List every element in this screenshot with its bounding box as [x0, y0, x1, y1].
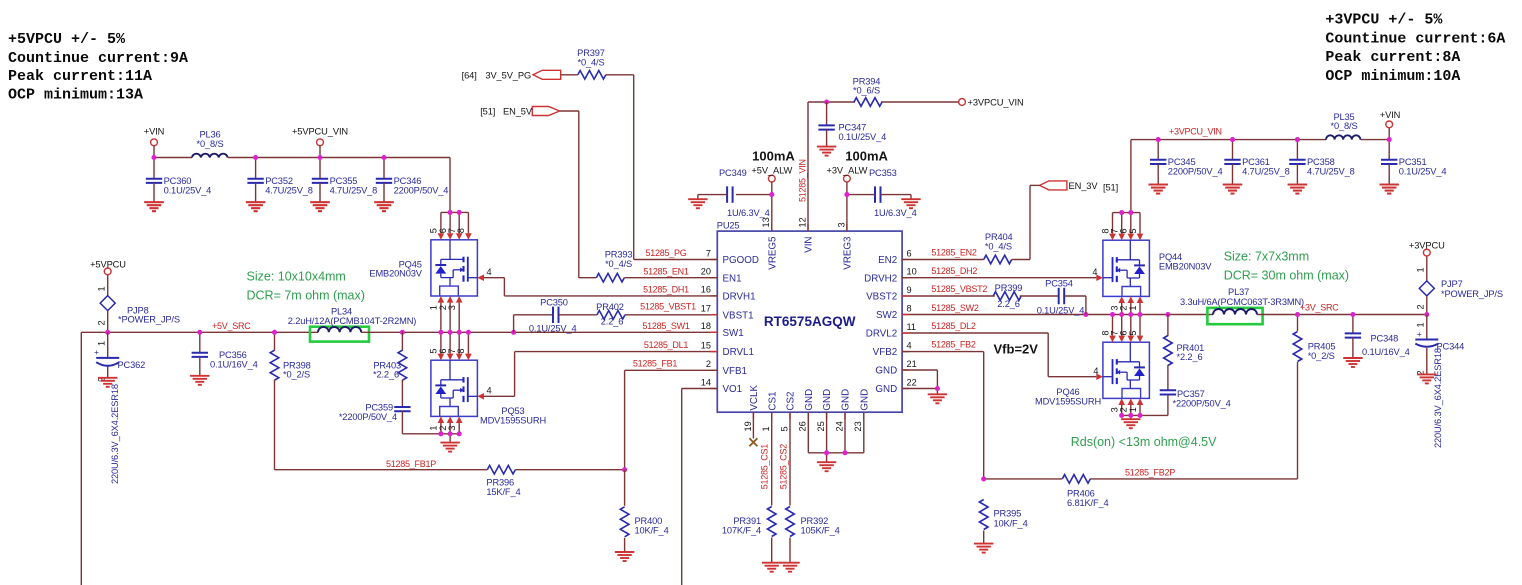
wire SW2 node [902, 314, 1213, 316]
wire +3V_ALW stem [846, 182, 848, 195]
note +5VPCU title block [8, 31, 188, 104]
svg-text:11: 11 [907, 322, 917, 332]
note +3VPCU title block [1325, 12, 1505, 85]
svg-text:3: 3 [447, 425, 457, 430]
junction PC355 [317, 155, 322, 160]
resistor PR398 [270, 332, 310, 380]
svg-text:PL34: PL34 [331, 306, 352, 316]
wire +5V_SRC line [81, 332, 318, 585]
transistor PQ53 MDV1595SURH [431, 360, 546, 425]
wire PQ46 gate to DRVL2 [902, 333, 1096, 377]
svg-text:0.1U/16V_4: 0.1U/16V_4 [210, 360, 258, 370]
capacitor PC344 (polarized) [1415, 315, 1464, 449]
svg-text:PC357: PC357 [1177, 389, 1205, 399]
wire VO1 row [682, 389, 718, 585]
svg-text:1: 1 [1128, 305, 1138, 310]
svg-text:19: 19 [743, 421, 753, 431]
svg-text:EMB20N03V: EMB20N03V [369, 269, 422, 279]
svg-text:PR406: PR406 [1067, 489, 1095, 499]
svg-text:4: 4 [1093, 366, 1098, 376]
no-connect X on VCLK pin 19 [749, 412, 757, 446]
svg-text:PR399: PR399 [995, 283, 1023, 293]
ground PR391 [762, 563, 781, 572]
svg-text:2.2_6: 2.2_6 [997, 299, 1020, 309]
svg-text:*POWER_JP/S: *POWER_JP/S [118, 314, 180, 324]
junction PJP8/+5V_SRC [105, 330, 110, 335]
svg-text:DCR= 30m ohm (max): DCR= 30m ohm (max) [1224, 268, 1349, 282]
svg-text:DCR= 7m ohm (max): DCR= 7m ohm (max) [247, 288, 365, 302]
svg-text:PJP7: PJP7 [1441, 279, 1463, 289]
junction PC346 [381, 155, 386, 160]
pin numbers PQ44 top [1100, 228, 1138, 233]
svg-text:*2.2_6: *2.2_6 [373, 370, 399, 380]
ground PC349 [688, 199, 707, 208]
pin 4 PQ45 (gate) [477, 267, 491, 281]
wire +3V_SRC line [1257, 314, 1427, 316]
svg-text:PC348: PC348 [1371, 334, 1399, 344]
svg-text:51285_SW1: 51285_SW1 [642, 321, 690, 331]
svg-text:51285_DH2: 51285_DH2 [931, 266, 977, 276]
svg-text:DRVL1: DRVL1 [723, 347, 754, 358]
svg-text:[51]: [51] [1103, 183, 1118, 193]
svg-text:*0_4/S: *0_4/S [985, 241, 1012, 251]
svg-text:0.1U/25V_4: 0.1U/25V_4 [839, 132, 887, 142]
pin arrows PQ46 top pins 8 7 6 5 [1109, 315, 1143, 343]
capacitor PC354 (bootstrap) [902, 279, 1086, 316]
svg-text:PC347: PC347 [839, 123, 867, 133]
svg-text:51285_FB1P: 51285_FB1P [386, 459, 436, 469]
svg-text:PR392: PR392 [801, 516, 829, 526]
pin numbers PQ45 bottom [429, 305, 457, 310]
junction PR405/+3V_SRC [1295, 312, 1300, 317]
svg-text:Countinue current:9A: Countinue current:9A [8, 50, 188, 67]
wire EN2 to EN_3V [902, 185, 1040, 259]
wire VREG5 net [736, 195, 772, 232]
junction PC361 [1230, 137, 1235, 142]
svg-text:PR396: PR396 [486, 478, 514, 488]
svg-text:4.7U/25V_8: 4.7U/25V_8 [330, 186, 378, 196]
IC top pin numbers [761, 217, 846, 227]
wire PQ45 drain bus [441, 211, 469, 213]
ground PC352 [246, 202, 265, 211]
wire +5VPCU_VIN stem [319, 146, 321, 158]
pin numbers PQ45 top [429, 228, 467, 233]
IC left pin numbers [701, 248, 711, 387]
IC bottom pin stubs [753, 412, 863, 419]
pin arrows PQ44 bottom pins 3 2 1 [1118, 296, 1143, 314]
note size right [1224, 249, 1349, 282]
svg-text:*0_6/S: *0_6/S [853, 85, 880, 95]
svg-text:6.81K/F_4: 6.81K/F_4 [1067, 498, 1109, 508]
svg-text:PC350: PC350 [540, 298, 568, 308]
svg-text:PL37: PL37 [1228, 287, 1249, 297]
ground PR400 [615, 552, 634, 561]
transistor PQ45 EMB20N03V [369, 240, 477, 296]
svg-text:2: 2 [1416, 304, 1426, 309]
svg-text:10: 10 [907, 267, 917, 277]
resistor PR394 [853, 76, 882, 106]
sheet connector EN_5V [480, 107, 559, 117]
svg-text:PR393: PR393 [605, 250, 633, 260]
svg-text:1U/6.3V_4: 1U/6.3V_4 [874, 208, 917, 218]
svg-text:VO1: VO1 [723, 384, 743, 395]
svg-text:0.1U/16V_4: 0.1U/16V_4 [1362, 347, 1410, 357]
svg-text:+3VPCU +/- 5%: +3VPCU +/- 5% [1325, 12, 1443, 29]
svg-text:VREG5: VREG5 [767, 236, 778, 270]
svg-text:51285_EN1: 51285_EN1 [643, 267, 689, 277]
junction PC348 [1350, 312, 1355, 317]
svg-text:PR391: PR391 [733, 516, 761, 526]
svg-text:+5V_SRC: +5V_SRC [212, 321, 251, 331]
IC top pin names [767, 236, 853, 270]
junction VIN/PC347 [824, 99, 829, 104]
svg-text:51285_VBST2: 51285_VBST2 [931, 284, 987, 294]
junction VREG5/PC349 [769, 192, 774, 197]
junction PC351/+VIN [1387, 137, 1392, 142]
capacitor PC352 [246, 158, 313, 212]
svg-text:23: 23 [853, 421, 863, 431]
svg-text:GND: GND [804, 389, 815, 411]
svg-text:17: 17 [701, 304, 711, 314]
svg-text:Size: 10x10x4mm: Size: 10x10x4mm [247, 269, 346, 283]
svg-text:*2.2_6: *2.2_6 [1177, 352, 1203, 362]
op-amp U1 / controller IC PU25 RT6575AGQW body [717, 220, 902, 412]
svg-text:4: 4 [487, 267, 492, 277]
svg-text:CS1: CS1 [767, 392, 778, 411]
svg-text:8: 8 [456, 348, 466, 353]
svg-text:9: 9 [907, 285, 912, 295]
capacitor PC350 (bootstrap) [514, 298, 597, 334]
capacitor PC347 [818, 102, 886, 147]
ground PR395 [974, 544, 993, 553]
pin numbers PQ44 bottom [1110, 305, 1138, 310]
svg-text:100mA: 100mA [845, 149, 888, 164]
svg-text:51285_FB1: 51285_FB1 [633, 358, 678, 368]
resistor PR402 [596, 302, 717, 327]
svg-text:Peak current:11A: Peak current:11A [8, 68, 152, 85]
svg-text:PC361: PC361 [1242, 157, 1270, 167]
pin numbers PQ46 top [1100, 330, 1138, 335]
transistor PQ44 EMB20N03V [1103, 240, 1212, 296]
ground PQ46 [1121, 419, 1140, 428]
pin arrows PQ53 top pins 5 6 7 8 [438, 332, 472, 360]
svg-text:PC345: PC345 [1168, 157, 1196, 167]
svg-text:5: 5 [1128, 228, 1138, 233]
svg-text:20: 20 [701, 267, 711, 277]
svg-text:220U/6.3V_6X4.2ESR18: 220U/6.3V_6X4.2ESR18 [110, 384, 120, 484]
junction PQ53 ground row [438, 431, 461, 436]
pin numbers PQ46 bottom [1110, 407, 1138, 412]
svg-text:4: 4 [1092, 267, 1097, 277]
svg-text:DRVL2: DRVL2 [866, 329, 897, 340]
wire CS2 [789, 412, 791, 505]
junction PQ46 ground row [1119, 413, 1142, 418]
transistor PQ46 MDV1595SURH [1035, 342, 1149, 406]
svg-text:2200P/50V_4: 2200P/50V_4 [394, 186, 449, 196]
svg-text:Size: 7x7x3mm: Size: 7x7x3mm [1224, 249, 1309, 263]
junction GND22 [935, 386, 940, 391]
svg-text:0.1U/25V_4: 0.1U/25V_4 [1037, 305, 1085, 315]
jumper PJP8 *POWER_JP/S [97, 275, 180, 346]
svg-text:1U/6.3V_4: 1U/6.3V_4 [727, 208, 770, 218]
svg-text:[64]: [64] [462, 70, 477, 80]
svg-text:Countinue current:6A: Countinue current:6A [1325, 30, 1505, 47]
resistor PR392 [786, 507, 840, 563]
svg-text:VFB2: VFB2 [873, 347, 898, 358]
svg-text:51285_FB2: 51285_FB2 [931, 340, 976, 350]
svg-text:PC346: PC346 [394, 176, 422, 186]
ground GND22 [928, 394, 947, 403]
svg-text:EN_5V: EN_5V [503, 107, 533, 117]
IC left pin names [723, 255, 759, 395]
ground PC362 [98, 378, 117, 387]
inductor PL37 with green highlight [1180, 287, 1304, 324]
svg-text:+: + [1417, 329, 1422, 339]
svg-text:1: 1 [1128, 407, 1138, 412]
wire GND21/GND22 [902, 370, 937, 394]
svg-text:105K/F_4: 105K/F_4 [801, 526, 840, 536]
resistor PR404 [984, 232, 1013, 264]
svg-text:8: 8 [907, 303, 912, 313]
junction PC358 [1295, 137, 1300, 142]
wire DRVH1 row [504, 295, 717, 297]
ground PC348 [1343, 358, 1362, 367]
svg-text:*0_8/S: *0_8/S [196, 139, 223, 149]
svg-text:PC353: PC353 [869, 168, 897, 178]
svg-text:2200P/50V_4: 2200P/50V_4 [1168, 167, 1223, 177]
sheet connector 3V_5V_PG [462, 70, 561, 80]
svg-text:VREG3: VREG3 [843, 236, 854, 270]
svg-text:*POWER_JP/S: *POWER_JP/S [1441, 289, 1503, 299]
svg-text:1: 1 [1416, 322, 1426, 327]
svg-text:0.1U/25V_4: 0.1U/25V_4 [1399, 167, 1447, 177]
svg-text:2.2_6: 2.2_6 [601, 316, 624, 326]
svg-text:100mA: 100mA [752, 149, 795, 164]
pin 4 PQ53 (gate) [477, 385, 491, 399]
wire VFB2 row [902, 352, 984, 479]
svg-text:PC356: PC356 [219, 350, 247, 360]
svg-text:[51]: [51] [480, 107, 495, 117]
svg-text:DRVH2: DRVH2 [864, 273, 897, 284]
junction PR398 [272, 330, 277, 335]
svg-text:+5VPCU_VIN: +5VPCU_VIN [292, 127, 348, 137]
svg-text:VBST2: VBST2 [866, 292, 897, 303]
svg-text:2.2uH/12A(PCMB104T-2R2MN): 2.2uH/12A(PCMB104T-2R2MN) [288, 316, 417, 326]
wire GND bus pins 26 25 24 23 [808, 412, 864, 462]
svg-text:18: 18 [701, 321, 711, 331]
svg-text:DRVH1: DRVH1 [723, 292, 756, 303]
wire PQ46 source ground row [1122, 415, 1168, 419]
svg-text:4: 4 [487, 385, 492, 395]
ground PC346 [374, 202, 393, 211]
svg-text:0.1U/25V_4: 0.1U/25V_4 [164, 186, 212, 196]
svg-text:107K/F_4: 107K/F_4 [722, 526, 761, 536]
pin 4 PQ44 (gate) [1092, 267, 1103, 281]
svg-text:5: 5 [779, 426, 789, 431]
terminal +5VPCU_VIN [292, 127, 348, 146]
svg-text:Rds(on) <13m ohm@4.5V: Rds(on) <13m ohm@4.5V [1071, 435, 1217, 449]
svg-text:VBST1: VBST1 [723, 310, 754, 321]
svg-text:VCLK: VCLK [749, 385, 760, 411]
junction FB1/FB1P [622, 467, 627, 472]
junction PC356 [197, 330, 202, 335]
svg-text:SW1: SW1 [723, 328, 744, 339]
terminal +3VPCU [1409, 241, 1445, 256]
svg-text:EN_3V: EN_3V [1069, 181, 1099, 191]
svg-text:*0_4/S: *0_4/S [577, 57, 604, 67]
svg-text:SW2: SW2 [876, 310, 897, 321]
svg-text:51285_FB2P: 51285_FB2P [1125, 468, 1175, 478]
junction VREG3/PC353 [844, 192, 849, 197]
svg-text:3.3uH/6A(PCMC063T-3R3MN): 3.3uH/6A(PCMC063T-3R3MN) [1180, 297, 1304, 307]
capacitor PC348 [1345, 315, 1410, 359]
junction SW1 row [400, 330, 516, 335]
svg-text:PC362: PC362 [118, 360, 146, 370]
wire PQ45 gate to DRVH1 [484, 278, 504, 296]
junction SW2 row [1083, 312, 1170, 317]
svg-text:OCP minimum:10A: OCP minimum:10A [1325, 68, 1460, 85]
svg-text:13: 13 [761, 217, 771, 227]
svg-text:VFB1: VFB1 [723, 366, 748, 377]
ground PC351 [1380, 185, 1399, 194]
wire PQ53 gate to DRVL1 [484, 352, 717, 397]
junction PQ45 drain bus [448, 210, 462, 215]
svg-text:51285_DH1: 51285_DH1 [643, 284, 689, 294]
resistor PR403 (snubber) [373, 332, 407, 380]
resistor PR396 [486, 465, 520, 497]
wire +VIN right stem [1388, 128, 1390, 140]
svg-text:1: 1 [761, 426, 771, 431]
wire 3V_5V_PG to PGOOD [561, 75, 718, 260]
ground PQ53 [440, 443, 459, 452]
ground PC360 [144, 202, 163, 211]
svg-text:EMB20N03V: EMB20N03V [1159, 261, 1212, 271]
svg-text:+3V_SRC: +3V_SRC [1300, 302, 1339, 312]
svg-text:3: 3 [836, 222, 846, 227]
inductor PL36 [192, 130, 228, 158]
wire EN_5V to EN1 [560, 111, 718, 278]
svg-text:51285_DL2: 51285_DL2 [931, 321, 976, 331]
svg-text:15: 15 [701, 340, 711, 350]
svg-text:PU25: PU25 [717, 220, 740, 230]
IC bottom pin numbers [743, 421, 863, 431]
wire VFB1 row [625, 370, 718, 469]
wire DRVH2 row [902, 277, 1096, 279]
IC right pin numbers [907, 248, 917, 387]
resistor PR405 [1293, 315, 1335, 479]
svg-text:51285_PG: 51285_PG [645, 248, 686, 258]
svg-text:1: 1 [1416, 267, 1426, 272]
svg-text:51285_CS1: 51285_CS1 [759, 444, 769, 490]
svg-text:+5V_ALW: +5V_ALW [751, 166, 792, 176]
pin 4 PQ46 (gate) [1093, 366, 1103, 380]
svg-text:51285_DL1: 51285_DL1 [644, 340, 689, 350]
svg-text:GND: GND [875, 384, 897, 395]
svg-text:51285_SW2: 51285_SW2 [931, 303, 979, 313]
resistor PR393 [596, 250, 632, 282]
svg-text:*0_4/S: *0_4/S [605, 259, 632, 269]
svg-text:3: 3 [447, 305, 457, 310]
terminal +3V_ALW [827, 166, 868, 183]
svg-text:15K/F_4: 15K/F_4 [486, 487, 520, 497]
svg-text:6: 6 [907, 248, 912, 258]
svg-text:+5VPCU: +5VPCU [90, 260, 126, 270]
svg-text:PR402: PR402 [596, 302, 624, 312]
IC right pin stubs [902, 260, 909, 389]
svg-text:51285_VBST1: 51285_VBST1 [640, 301, 696, 311]
svg-text:25: 25 [816, 421, 826, 431]
svg-text:PL36: PL36 [199, 130, 220, 140]
junction PQ44 drain bus [1119, 210, 1133, 215]
wire SW1 node [361, 331, 717, 333]
pin arrows PQ46 bottom pins 3 2 1 [1118, 398, 1143, 415]
capacitor PC362 (polarized) [94, 332, 145, 484]
pin arrows PQ53 bottom pins 1 2 3 [438, 416, 463, 433]
svg-text:22: 22 [907, 377, 917, 387]
ground PC344 [1417, 374, 1436, 383]
svg-text:GND: GND [841, 389, 852, 411]
svg-text:4.7U/25V_8: 4.7U/25V_8 [265, 186, 313, 196]
svg-text:GND: GND [859, 389, 870, 411]
svg-text:PC349: PC349 [719, 168, 747, 178]
capacitor PC349 [698, 168, 770, 218]
svg-text:MDV1595SURH: MDV1595SURH [1035, 396, 1101, 406]
capacitor PC355 [310, 158, 377, 212]
junction GND bus [824, 450, 848, 455]
junction PC352 [253, 155, 258, 160]
svg-text:21: 21 [907, 359, 917, 369]
IC right pin names [864, 255, 897, 395]
svg-text:PR397: PR397 [577, 48, 605, 58]
capacitor PC360 [144, 158, 211, 212]
svg-text:PC358: PC358 [1307, 157, 1335, 167]
ground GND bus [817, 462, 836, 471]
wire +5V_ALW stem [771, 182, 773, 195]
resistor PR399 [993, 283, 1022, 309]
svg-text:16: 16 [701, 285, 711, 295]
inductor PL35 [1326, 112, 1360, 140]
pin numbers PQ53 bottom [429, 425, 457, 430]
pin arrows PQ45 top pins 5 6 7 8 [438, 212, 472, 239]
IC top pin stubs [772, 224, 847, 231]
resistor PR400 [620, 470, 668, 552]
svg-text:VIN: VIN [804, 237, 815, 253]
junction PC345 [1156, 137, 1161, 142]
svg-text:51285_EN2: 51285_EN2 [931, 247, 977, 257]
svg-text:10K/F_4: 10K/F_4 [635, 526, 669, 536]
junction PJP7/+3V_SRC [1424, 312, 1429, 317]
svg-text:Vfb=2V: Vfb=2V [994, 341, 1039, 356]
svg-text:PC360: PC360 [164, 176, 192, 186]
svg-text:5: 5 [1128, 330, 1138, 335]
wire +VIN stem [153, 146, 155, 158]
junction FB2/FB2P [981, 476, 986, 481]
wire +3VPCU_VIN rail [1131, 140, 1389, 213]
svg-text:4.7U/25V_8: 4.7U/25V_8 [1307, 167, 1355, 177]
svg-text:+3VPCU_VIN: +3VPCU_VIN [968, 98, 1024, 108]
svg-text:CS2: CS2 [786, 392, 797, 411]
svg-text:PGOOD: PGOOD [723, 255, 759, 266]
ground PC358 [1288, 185, 1307, 194]
svg-text:*0_8/S: *0_8/S [1330, 121, 1357, 131]
svg-text:PC355: PC355 [330, 176, 358, 186]
inductor PL34 with green highlight [288, 306, 417, 341]
terminal +3VPCU_VIN [959, 98, 1024, 108]
ground PR392 [780, 563, 799, 572]
ground PC347 [817, 147, 836, 156]
svg-text:PC351: PC351 [1399, 157, 1427, 167]
wire +5VPCU_VIN rail right segment [228, 158, 450, 213]
